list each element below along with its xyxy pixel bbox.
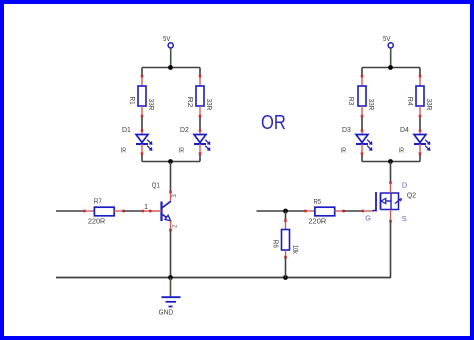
svg-text:220R: 220R	[308, 217, 326, 226]
svg-text:IR: IR	[121, 146, 126, 155]
svg-text:D3: D3	[342, 125, 351, 134]
svg-text:D2: D2	[180, 125, 189, 134]
svg-text:33R: 33R	[147, 99, 156, 111]
svg-text:IR: IR	[399, 146, 404, 155]
svg-text:IR: IR	[341, 146, 346, 155]
svg-text:10k: 10k	[291, 245, 300, 254]
svg-text:D1: D1	[122, 125, 131, 134]
svg-text:Q1: Q1	[152, 180, 160, 189]
svg-text:R4: R4	[406, 97, 415, 106]
svg-text:IR: IR	[179, 146, 184, 155]
svg-text:33R: 33R	[205, 99, 214, 111]
svg-text:G: G	[365, 214, 371, 223]
svg-text:D4: D4	[400, 125, 409, 134]
svg-text:GND: GND	[159, 307, 174, 316]
svg-text:R1: R1	[128, 97, 137, 105]
svg-text:220R: 220R	[88, 217, 105, 226]
svg-text:2: 2	[172, 224, 178, 228]
svg-text:3: 3	[172, 194, 178, 198]
svg-text:R6: R6	[272, 240, 281, 248]
svg-text:D: D	[402, 181, 407, 190]
svg-text:33R: 33R	[367, 99, 376, 111]
svg-text:OR: OR	[261, 112, 286, 134]
svg-text:R3: R3	[347, 97, 356, 105]
svg-text:5V: 5V	[163, 34, 170, 43]
svg-text:33R: 33R	[425, 99, 434, 111]
svg-text:Q2: Q2	[407, 190, 416, 199]
svg-text:S: S	[402, 214, 407, 223]
svg-text:R5: R5	[314, 197, 322, 206]
svg-text:1: 1	[144, 202, 148, 211]
svg-text:5V: 5V	[383, 34, 390, 43]
svg-text:R2: R2	[186, 97, 195, 108]
svg-text:R7: R7	[94, 196, 102, 205]
